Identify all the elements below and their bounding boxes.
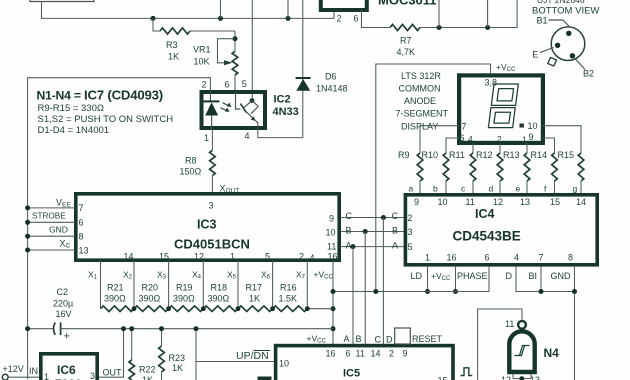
wire N4 inputs [501,374,540,380]
wire IC2 pin5 from top [251,0,253,100]
svg-text:6: 6 [485,253,490,263]
wire Xc line [25,239,75,253]
wire d to IC4 [489,181,501,194]
wire f to IC4 [544,181,555,194]
resistor R10 [422,150,449,181]
svg-text:IC6: IC6 [57,363,76,377]
label GND IC4 [551,271,572,281]
svg-text:1: 1 [44,372,49,380]
svg-text:R11: R11 [449,150,465,160]
node B junction [363,229,368,234]
svg-text:11: 11 [327,242,336,252]
svg-text:IC4: IC4 [475,207,495,221]
svg-text:10K: 10K [194,57,210,67]
svg-text:C: C [375,335,382,345]
svg-text:UP/DN: UP/DN [236,350,269,362]
svg-text:MOC3011: MOC3011 [378,0,437,8]
svg-text:9: 9 [414,197,419,207]
svg-text:390Ω: 390Ω [104,294,126,304]
svg-text:VEE: VEE [56,198,71,209]
wire g to IC4 [573,181,582,194]
svg-text:12: 12 [493,197,503,207]
svg-text:8: 8 [568,253,573,263]
svg-text:X2: X2 [123,270,133,281]
resistor R12 [476,150,503,181]
wire VEE line [25,198,75,211]
svg-text:d: d [489,184,494,194]
wire stub up x288 [287,0,289,18]
label C [375,335,382,345]
resistor R11 [449,150,476,181]
svg-text:390Ω: 390Ω [139,294,161,304]
svg-text:LD: LD [411,271,423,281]
wire C net IC3 to IC4 [341,211,405,221]
wire BI down [539,267,544,294]
wire display pin4 to c [472,143,474,153]
wire +Vcc into IC5 label [307,334,327,345]
resistor R7 [362,0,518,57]
svg-text:D: D [386,335,393,345]
svg-text:f: f [544,184,547,194]
svg-text:16: 16 [326,349,336,359]
svg-text:R19: R19 [176,283,193,293]
svg-text:R17: R17 [246,283,263,293]
wire GND line [25,225,75,239]
svg-text:CD4543BE: CD4543BE [453,229,521,244]
svg-text:11: 11 [466,197,475,207]
svg-text:13: 13 [530,375,540,380]
svg-text:B: B [392,226,398,236]
svg-text:2: 2 [337,14,342,24]
svg-text:9: 9 [329,214,334,224]
wire X7 [296,261,307,309]
svg-text:1: 1 [204,133,209,143]
label LD [411,271,423,281]
label D [386,335,393,345]
svg-text:B: B [346,226,352,236]
svg-text:11: 11 [505,319,514,329]
wire B net IC3 to IC4 [341,226,405,236]
box cropped component at bottom [258,377,272,380]
svg-text:3: 3 [90,371,95,380]
svg-text:D6: D6 [325,72,337,82]
label LTS 312R note [396,71,449,132]
node junction rail x288 [286,16,291,21]
svg-text:UJT 2N2646: UJT 2N2646 [537,0,585,5]
svg-text:10: 10 [326,228,336,238]
wire +Vcc rail under IC4 [333,289,489,294]
svg-text:6: 6 [79,218,84,228]
LED inside IC2 [204,91,220,131]
wire X2 [123,261,134,309]
label BI [529,271,538,281]
UJT bottom view [532,0,599,78]
wire stub up x220 [220,0,222,18]
svg-text:R12: R12 [476,150,493,160]
wire B down to IC5 [364,232,366,345]
svg-text:R7: R7 [400,36,412,46]
svg-text:4: 4 [514,253,519,263]
svg-text:9: 9 [529,132,534,142]
svg-text:12: 12 [194,252,204,262]
svg-text:R10: R10 [422,150,439,160]
svg-text:R13: R13 [503,150,520,160]
svg-text:1N4148: 1N4148 [316,84,348,94]
svg-text:12: 12 [501,375,511,380]
svg-text:R18: R18 [211,283,228,293]
svg-text:CD4051BCN: CD4051BCN [174,237,250,252]
svg-text:R20: R20 [142,283,159,293]
svg-text:15: 15 [550,197,560,207]
svg-text:1K: 1K [249,294,260,304]
svg-text:+VCC: +VCC [307,334,327,345]
regulator IC6 7806 [41,354,97,380]
wire display pin1 to e [526,143,528,153]
node Xout label [220,184,240,195]
svg-text:c: c [461,184,466,194]
svg-text:3,8: 3,8 [485,78,498,88]
svg-text:X7: X7 [296,270,306,281]
svg-text:B: B [356,334,362,344]
svg-text:VR1: VR1 [193,45,211,55]
svg-text:D1-D4 = 1N4001: D1-D4 = 1N4001 [38,125,110,136]
node junction rail-R3 [151,16,156,21]
wire a to IC4 [409,181,421,194]
wire display pin9 to f [543,138,555,153]
svg-text:16V: 16V [56,309,72,319]
box (cropped component box at top-left) [30,0,94,2]
wire IC2 pin4 to D6 line [258,130,303,138]
svg-text:14: 14 [124,252,134,262]
svg-text:PHASE: PHASE [457,271,488,281]
resistor R21 [101,283,135,312]
svg-text:BI: BI [529,271,538,281]
svg-text:8: 8 [79,232,84,242]
svg-text:1K: 1K [142,375,153,380]
svg-text:R8: R8 [185,156,197,166]
svg-text:C: C [392,211,399,221]
wire IC6 output to rail [99,326,126,377]
svg-text:7: 7 [539,253,544,263]
svg-text:6: 6 [354,14,359,24]
svg-text:OUT: OUT [103,368,123,378]
svg-text:1: 1 [425,253,430,263]
resistor R19 [169,283,204,312]
wire e to IC4 [516,181,528,194]
svg-text:6: 6 [346,349,351,359]
node junction x487 [485,0,490,30]
diode D6 1N4148 [296,0,348,138]
svg-text:R9: R9 [398,150,410,160]
svg-text:16: 16 [447,253,457,263]
svg-text:390Ω: 390Ω [173,294,195,304]
notes text [37,88,174,137]
svg-text:C2: C2 [57,287,69,297]
wire +Vcc feed to display [376,64,491,292]
svg-text:150Ω: 150Ω [180,167,202,177]
wire C down to IC5 [382,218,384,345]
svg-text:11: 11 [356,349,365,359]
node A junction [351,244,356,249]
resistor R9 [398,150,423,181]
svg-text:g: g [573,184,578,194]
resistor R23 [159,326,185,380]
svg-text:14: 14 [371,349,381,359]
svg-text:10: 10 [279,359,289,369]
wire UP/DN [194,326,275,380]
svg-text:ANODE: ANODE [404,96,436,106]
resistor R18 [203,283,238,312]
svg-text:10: 10 [528,121,538,131]
svg-text:X6: X6 [261,270,271,281]
svg-text:GND: GND [49,225,68,235]
potentiometer VR1 [193,31,238,91]
wire display pin7 to a [420,126,459,153]
svg-text:7: 7 [462,122,467,132]
svg-text:4: 4 [310,253,315,263]
node junction x439 [437,0,442,30]
svg-text:2: 2 [202,80,207,90]
label D [506,271,513,281]
svg-text:R16: R16 [280,283,297,293]
wire STROBE line [25,212,75,225]
svg-text:N4: N4 [544,346,560,360]
wire PHASE down [488,267,490,292]
node chain junctions [132,306,310,311]
svg-text:e: e [516,184,521,194]
label OUT [103,368,123,378]
wire D down [516,267,575,292]
svg-text:+VCC: +VCC [496,62,516,73]
svg-text:2: 2 [497,134,502,144]
svg-text:D: D [506,271,513,281]
wire display pin6 to b [446,138,459,153]
wire A down to IC5 [352,247,354,344]
svg-text:COMMON: COMMON [399,84,441,94]
label +Vcc display [496,62,516,73]
wire N4 output to IC5 clock [478,309,522,380]
gate N4 [505,319,559,372]
wire IC2 pin2 to left bus [28,78,211,379]
svg-text:4,7K: 4,7K [397,47,416,57]
resistor R13 [503,150,530,181]
svg-text:1K: 1K [172,363,183,373]
svg-text:R23: R23 [169,353,186,363]
svg-text:A: A [392,241,398,251]
svg-text:N1-N4 = IC7 (CD4093): N1-N4 = IC7 (CD4093) [37,88,163,103]
label RESET [412,334,443,344]
svg-text:RESET: RESET [412,334,443,344]
svg-text:+12V: +12V [3,364,24,374]
svg-text:1.5K: 1.5K [279,294,298,304]
node junction rail x220 [218,16,223,21]
label +Vcc IC4 [431,271,451,282]
svg-text:+VCC: +VCC [431,271,451,282]
7-segment digit [488,84,518,128]
svg-text:2: 2 [389,349,394,359]
svg-text:GND: GND [551,271,572,281]
wire X3 [157,261,169,309]
resistor R20 [134,283,169,312]
svg-text:1: 1 [522,135,527,145]
svg-text:3: 3 [408,227,413,237]
svg-text:C: C [346,211,353,221]
svg-text:R3: R3 [166,40,178,50]
wire display pin2 to d [499,143,501,153]
svg-text:a: a [409,184,414,194]
wire b to IC4 [433,181,446,194]
svg-text:13: 13 [79,246,89,256]
wire X1 [88,261,101,309]
pulse symbol clock [461,368,473,376]
svg-text:13: 13 [520,197,530,207]
wire display pin10 to g [543,126,581,153]
label +Vcc under IC3 [314,270,334,281]
resistor R14 [531,150,558,181]
svg-text:1: 1 [230,252,235,262]
svg-text:IC3: IC3 [197,218,217,232]
svg-text:R14: R14 [531,150,548,160]
opto-coupler IC2 4N33 [202,79,299,143]
photo-transistor inside IC2 [236,92,259,130]
IC3 CD4051BCN [76,194,339,263]
svg-text:X3: X3 [157,270,167,281]
wire c to IC4 [461,181,473,194]
svg-text:R21: R21 [107,283,124,293]
svg-text:+: + [64,331,70,343]
svg-text:5: 5 [242,79,247,89]
resistor R8 [180,130,216,193]
svg-text:220µ: 220µ [53,299,73,309]
svg-text:4N33: 4N33 [273,106,299,118]
svg-text:IC5: IC5 [343,368,360,380]
svg-text:16: 16 [328,252,338,262]
svg-text:2: 2 [299,252,304,262]
resistor R17 [238,283,273,312]
svg-text:LTS 312R: LTS 312R [401,71,441,81]
svg-text:6: 6 [225,80,230,90]
terminal +12V [2,364,39,380]
light arrows [221,103,232,112]
resistor R15 [558,150,584,181]
svg-text:9: 9 [403,349,408,359]
wire X5 [227,261,238,309]
svg-text:10: 10 [438,197,448,207]
wire R16 to +Vcc [307,308,333,310]
svg-text:4: 4 [245,131,250,141]
svg-text:IN: IN [29,366,38,376]
svg-text:14: 14 [576,197,586,207]
label A [344,334,350,344]
svg-text:+VCC: +VCC [314,270,334,281]
svg-text:R22: R22 [139,365,156,375]
svg-text:2: 2 [408,213,413,223]
IC4 CD4543BE [405,195,597,265]
svg-text:R9-R15 = 330Ω: R9-R15 = 330Ω [38,103,105,114]
decimal point [520,124,524,128]
wire X4 [192,261,203,309]
svg-text:3: 3 [209,201,214,211]
svg-text:XC: XC [60,239,71,250]
svg-text:1K: 1K [168,52,179,62]
resistor R3 [153,18,235,61]
wire +Vcc pin16 down [453,267,458,294]
svg-text:5: 5 [265,252,270,262]
7-segment display box [459,75,543,144]
svg-text:6: 6 [460,133,465,143]
svg-text:X1: X1 [88,270,98,281]
label IN [29,366,38,376]
resistor R16 [273,283,308,312]
svg-text:15: 15 [159,252,169,262]
svg-text:7-SEGMENT: 7-SEGMENT [396,109,449,119]
svg-text:IC2: IC2 [274,94,291,106]
capacitor C2 [25,287,333,343]
svg-text:B2: B2 [583,69,594,79]
svg-text:15: 15 [438,376,448,380]
wire GND down [572,267,577,380]
wire X6 [261,261,273,309]
label B [356,334,362,344]
svg-text:X4: X4 [192,270,202,281]
wire A net IC3 to IC4 [341,241,405,251]
svg-text:S1,S2 = PUSH TO ON SWITCH: S1,S2 = PUSH TO ON SWITCH [38,114,174,125]
RESET box [395,328,411,344]
svg-text:5: 5 [408,242,413,252]
wire top supply rail [42,2,335,19]
svg-text:B1: B1 [537,16,548,26]
resistor R22 [129,326,156,380]
svg-text:E: E [532,50,538,60]
svg-text:4: 4 [468,134,473,144]
IC5 counter [276,346,453,380]
svg-text:X5: X5 [227,270,237,281]
svg-text:b: b [433,184,438,194]
svg-text:A: A [344,334,350,344]
wire LD down [425,267,430,294]
triac driver MOC3011 [321,0,437,24]
svg-text:A: A [346,241,352,251]
node C junction [381,215,386,220]
label PHASE [457,271,488,281]
svg-text:R15: R15 [558,150,575,160]
svg-text:STROBE: STROBE [32,212,66,221]
svg-text:7: 7 [79,203,84,213]
wire +Vcc vertical from IC3 pin16 [331,261,336,345]
svg-text:390Ω: 390Ω [208,294,230,304]
